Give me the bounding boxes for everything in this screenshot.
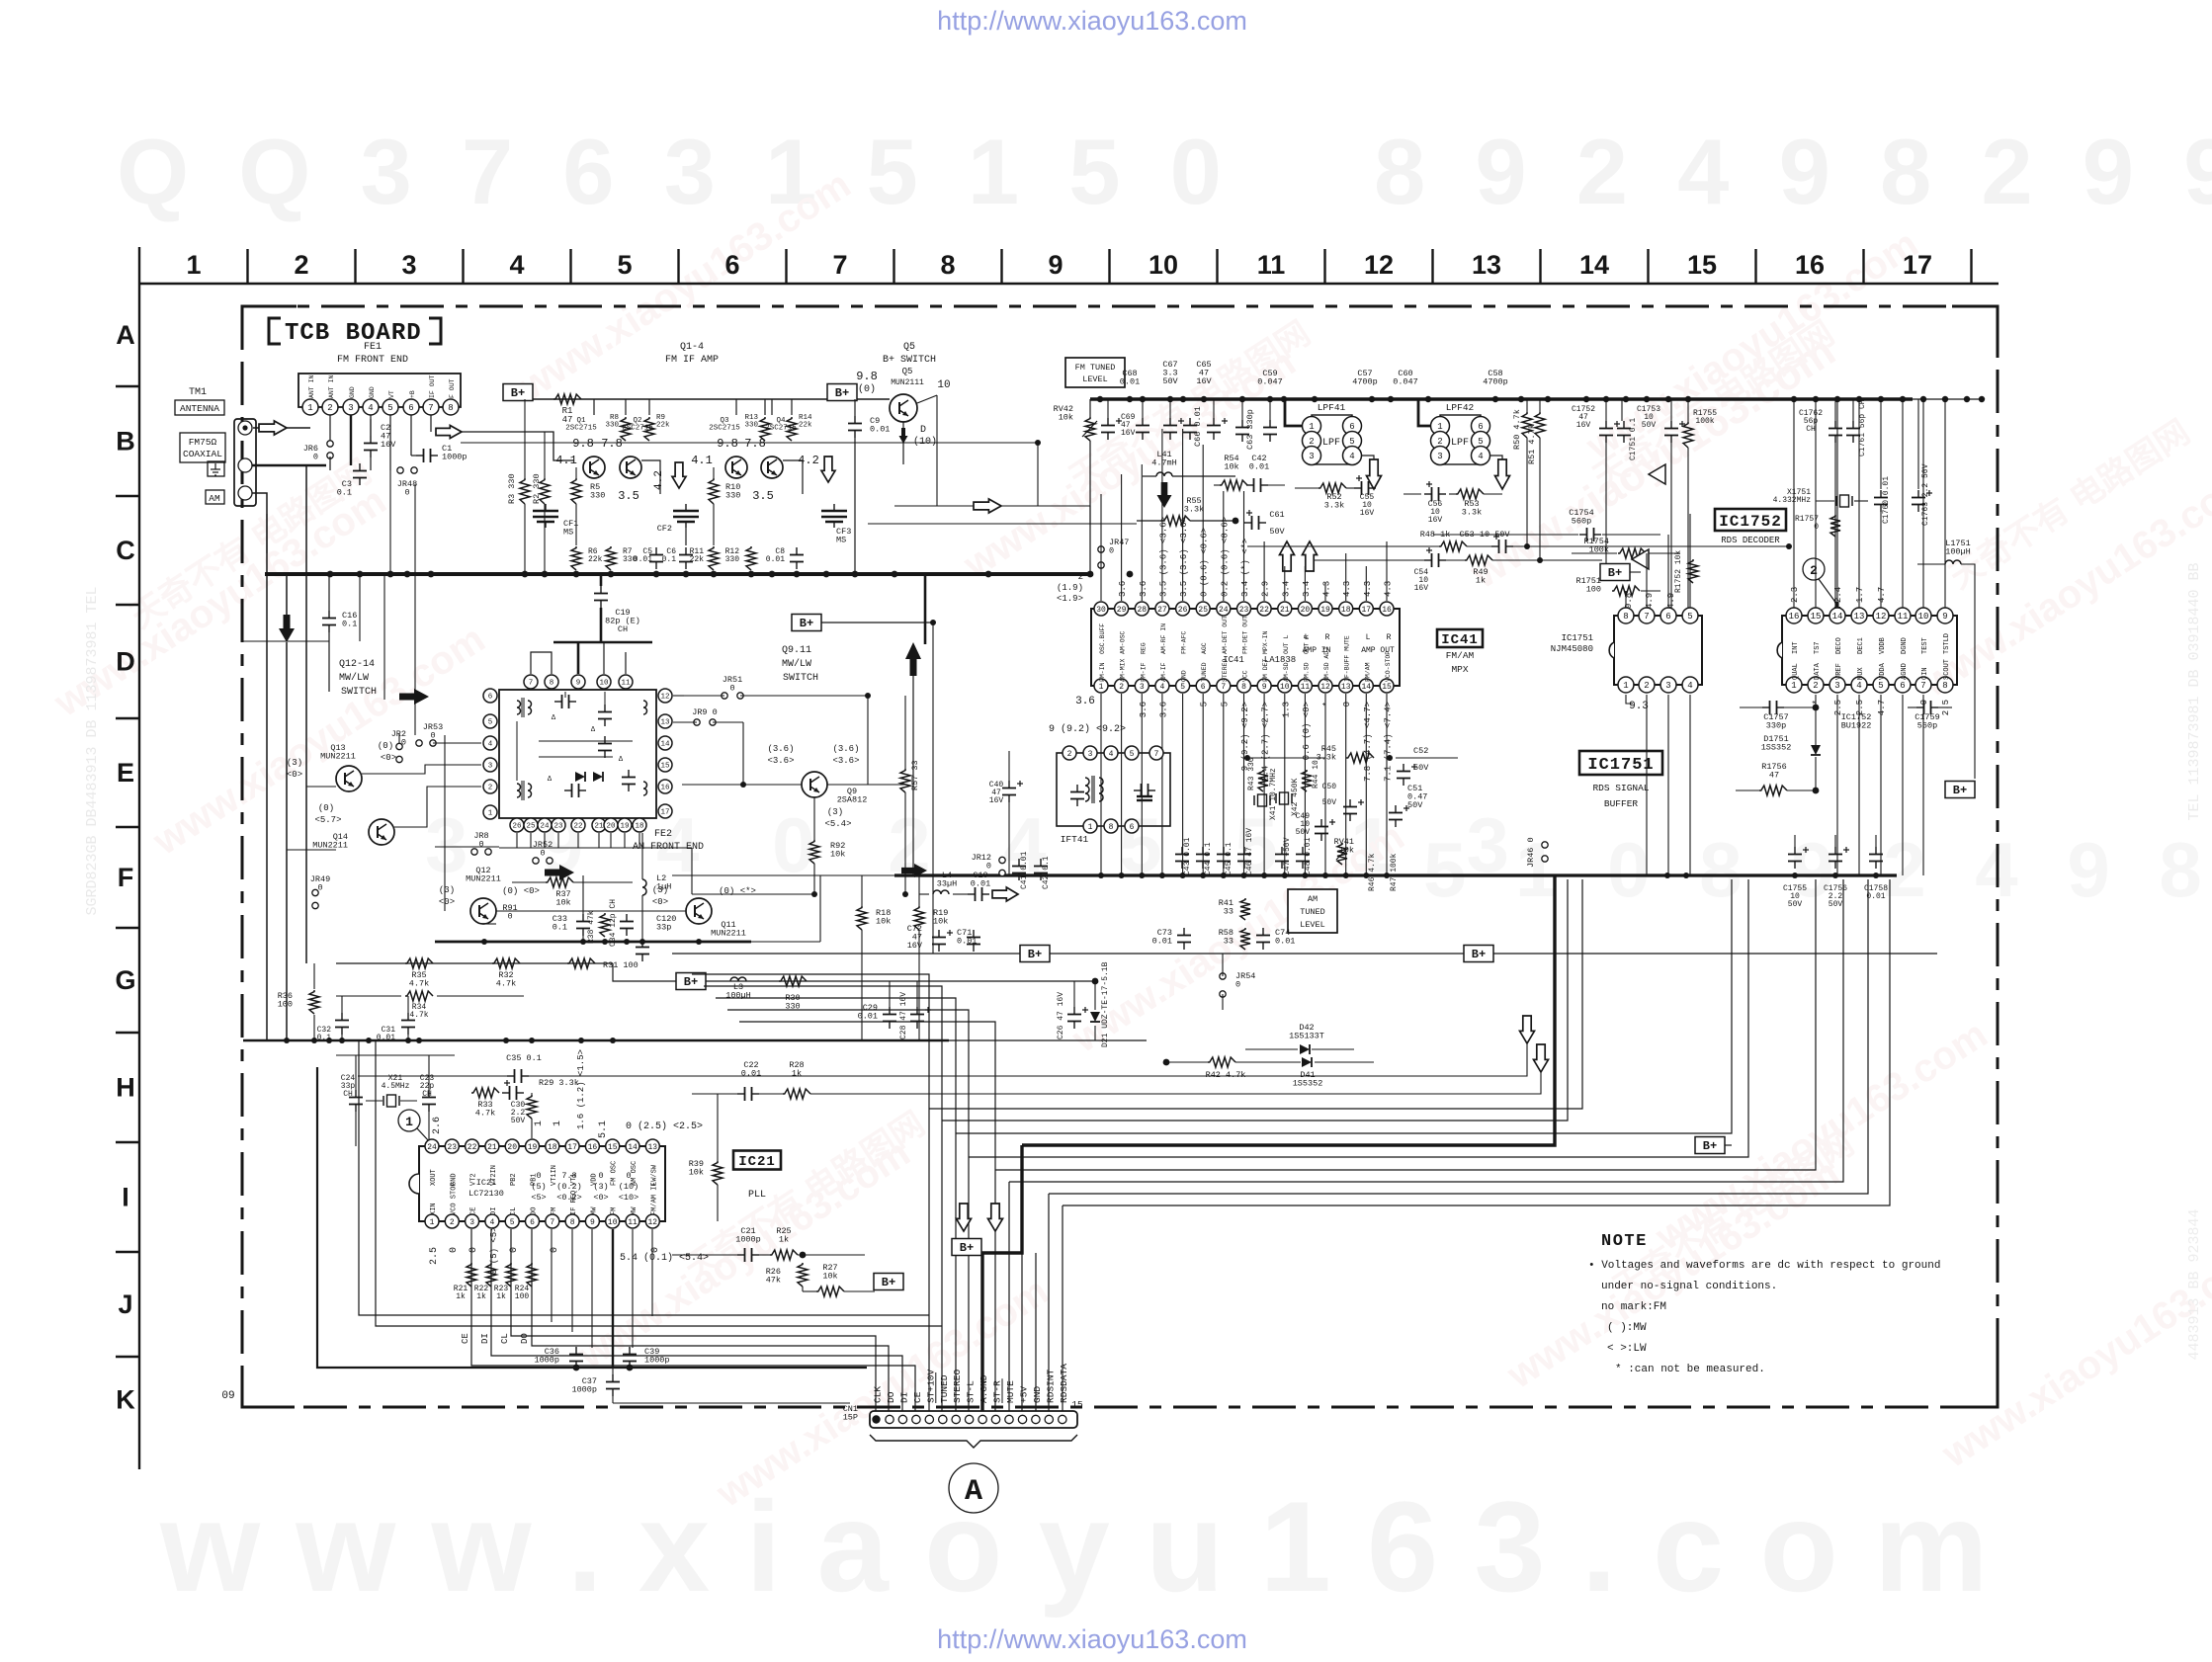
svg-text:1k: 1k xyxy=(792,1069,802,1079)
svg-text:10: 10 xyxy=(937,379,950,391)
svg-text:10k: 10k xyxy=(830,850,845,860)
resistor R30 xyxy=(779,976,807,986)
IC21 pin 5 xyxy=(505,1214,519,1228)
IC21 pin 2 xyxy=(445,1214,459,1228)
resistor R50 xyxy=(1522,412,1532,438)
capacitor C68 xyxy=(1142,418,1144,426)
svg-text:1: 1 xyxy=(430,1218,435,1227)
svg-text:0: 0 xyxy=(468,1247,479,1253)
svg-text:(10): (10) xyxy=(913,436,937,448)
svg-text:TUNED: TUNED xyxy=(1300,907,1325,917)
svg-text:50V: 50V xyxy=(1162,376,1178,386)
resistor R14 xyxy=(787,417,797,441)
svg-text:4.7k: 4.7k xyxy=(409,1011,428,1020)
FE2 pin 3 xyxy=(483,758,497,772)
svg-text:5: 5 xyxy=(387,403,392,413)
svg-text:10: 10 xyxy=(1149,250,1178,280)
svg-text:560p: 560p xyxy=(1572,517,1591,527)
svg-text:AM-MIX: AM-MIX xyxy=(1120,658,1127,682)
arrow IF out xyxy=(436,426,462,439)
svg-text:IC21: IC21 xyxy=(738,1154,776,1170)
svg-text:3.4 (*) <*>: 3.4 (*) <*> xyxy=(1240,539,1250,597)
op-amp IC1751 buffer A xyxy=(1649,464,1665,484)
svg-text:17: 17 xyxy=(567,1143,577,1152)
svg-text:4: 4 xyxy=(1687,681,1692,691)
capacitor C1759 xyxy=(1916,706,1924,708)
svg-text:23: 23 xyxy=(553,823,563,831)
wires Q2 to CF2 xyxy=(641,460,660,494)
svg-text:C26 47 16V: C26 47 16V xyxy=(1057,992,1065,1039)
svg-text:20: 20 xyxy=(606,823,616,831)
svg-text:<1.9>: <1.9> xyxy=(1057,594,1083,604)
svg-text:9 (9.2) <9.2>: 9 (9.2) <9.2> xyxy=(1049,723,1126,735)
wire bus verticals right of Q5 xyxy=(936,395,938,506)
svg-text:13: 13 xyxy=(1472,250,1501,280)
FE2 pin 9 xyxy=(571,675,585,689)
svg-text:B+: B+ xyxy=(960,1241,974,1255)
svg-text:FM: FM xyxy=(611,1207,619,1215)
svg-text:7.8: 7.8 xyxy=(601,437,623,451)
IC41 pin 11 xyxy=(1298,679,1312,693)
capacitor C8 xyxy=(796,547,798,555)
svg-text:0.1: 0.1 xyxy=(342,620,357,629)
svg-text:10k: 10k xyxy=(876,917,891,927)
svg-text:DO: DO xyxy=(520,1333,530,1344)
svg-text:3: 3 xyxy=(348,403,353,413)
svg-text:SCOUT: SCOUT xyxy=(1943,659,1951,680)
svg-text:B+: B+ xyxy=(1953,784,1967,797)
svg-text:560p: 560p xyxy=(1917,721,1937,731)
label B+ rds xyxy=(1600,564,1630,581)
IC21 pin 8 xyxy=(565,1214,579,1228)
svg-text:www.xiaoyu163.com: www.xiaoyu163.com xyxy=(1934,1229,2212,1476)
svg-text:20: 20 xyxy=(1301,606,1311,615)
svg-text:B+: B+ xyxy=(835,386,849,400)
label AM TUNED LEVEL xyxy=(1288,889,1337,933)
svg-text:AM: AM xyxy=(209,493,220,504)
svg-text:AM-SD: AM-SD xyxy=(1283,662,1290,682)
svg-text:FM-DET OUT: FM-DET OUT xyxy=(1242,616,1249,654)
svg-text:4.3: 4.3 xyxy=(1342,581,1352,597)
svg-text:XIN: XIN xyxy=(430,1203,438,1215)
svg-text:4: 4 xyxy=(1159,683,1164,692)
svg-text:13: 13 xyxy=(1854,612,1865,622)
svg-text:2.4: 2.4 xyxy=(1833,587,1843,603)
capacitor C32 xyxy=(341,1013,343,1021)
svg-text:16V: 16V xyxy=(1576,421,1591,430)
svg-text:LPF: LPF xyxy=(1322,438,1340,449)
svg-text:IF OUT: IF OUT xyxy=(429,374,436,398)
label B+ mid xyxy=(792,615,821,631)
svg-text:LEVEL: LEVEL xyxy=(1300,920,1325,930)
svg-text:VCO STOP: VCO STOP xyxy=(450,1182,458,1215)
svg-text:CF2: CF2 xyxy=(657,524,672,534)
IC21 pin 18 xyxy=(546,1139,559,1153)
svg-text:FM OSC: FM OSC xyxy=(611,1161,619,1186)
svg-text:100µH: 100µH xyxy=(725,991,751,1001)
IC41 pin 3 xyxy=(1135,679,1149,693)
capacitor C5 xyxy=(655,547,657,555)
svg-text:C66 0.01: C66 0.01 xyxy=(1193,406,1203,447)
transistor Q11 xyxy=(686,898,712,924)
AM front end FE2 xyxy=(499,690,656,818)
svg-text:<0>: <0> xyxy=(652,897,668,907)
svg-text:<0>: <0> xyxy=(287,770,302,780)
resistor R9 xyxy=(644,417,654,441)
svg-text:6: 6 xyxy=(530,1218,535,1227)
resistor R13 xyxy=(760,417,770,441)
svg-text:ANT IN: ANT IN xyxy=(328,374,335,398)
svg-text:Q9.11: Q9.11 xyxy=(782,645,811,656)
IC41 pin 12 xyxy=(1319,679,1332,693)
svg-text:IC41: IC41 xyxy=(1223,655,1244,665)
IC41 pin 5 xyxy=(1176,679,1190,693)
svg-text:A.GND: A.GND xyxy=(978,1374,989,1403)
svg-text:0.01: 0.01 xyxy=(1866,892,1885,901)
connector label A xyxy=(949,1463,998,1513)
svg-text:2: 2 xyxy=(1078,572,1083,582)
IC41 pin 18 xyxy=(1339,602,1353,616)
IC41 pin 1 xyxy=(1094,679,1108,693)
svg-text:0: 0 xyxy=(478,840,483,850)
svg-text:9.8: 9.8 xyxy=(717,437,738,451)
svg-text:6: 6 xyxy=(724,250,739,280)
svg-text:1: 1 xyxy=(1437,422,1442,432)
svg-text:1: 1 xyxy=(405,1115,413,1129)
svg-text:AGC: AGC xyxy=(1201,642,1208,654)
FE2 pin 7 xyxy=(524,675,538,689)
svg-text:4.3: 4.3 xyxy=(1322,581,1332,597)
svg-text:TUNED: TUNED xyxy=(1201,662,1208,682)
svg-text:BUFFER: BUFFER xyxy=(1604,798,1639,809)
label IC41 boxed xyxy=(1437,629,1483,647)
capacitor C67 xyxy=(1169,418,1171,426)
svg-text:5: 5 xyxy=(1220,702,1230,706)
svg-text:33: 33 xyxy=(1224,937,1234,947)
transformer IFT41 xyxy=(1057,753,1170,826)
svg-text:5: 5 xyxy=(1200,702,1210,706)
svg-text:C61: C61 xyxy=(1269,510,1284,520)
svg-text:330: 330 xyxy=(725,555,740,564)
svg-text:10k: 10k xyxy=(933,917,948,927)
resistor R5 xyxy=(571,478,581,504)
FE2 pin 23 xyxy=(552,818,565,832)
svg-text:PB2: PB2 xyxy=(510,1173,518,1186)
svg-text:2: 2 xyxy=(1813,681,1818,691)
ground rail PLL xyxy=(243,1039,949,1042)
svg-text:CH: CH xyxy=(618,624,628,634)
svg-text:8 9 2 4 9 8 2 9 9: 8 9 2 4 9 8 2 9 9 xyxy=(1374,120,2212,223)
svg-text:0: 0 xyxy=(430,731,435,741)
label B+ b xyxy=(1464,946,1493,962)
svg-text:5: 5 xyxy=(617,250,632,280)
svg-text:4: 4 xyxy=(489,1218,494,1227)
capacitor C1757 xyxy=(1762,706,1770,708)
svg-text:21: 21 xyxy=(1280,606,1290,615)
svg-text:0.01: 0.01 xyxy=(1120,377,1140,387)
svg-text:330p: 330p xyxy=(1766,721,1786,731)
arrow into bus xyxy=(901,864,927,877)
svg-text:8: 8 xyxy=(1241,683,1246,692)
IC21 pin 20 xyxy=(505,1139,519,1153)
svg-text:3: 3 xyxy=(1140,683,1145,692)
svg-text:1: 1 xyxy=(488,810,493,818)
capacitor C54 xyxy=(1424,559,1432,561)
svg-text:1000p: 1000p xyxy=(571,1385,597,1395)
svg-text:(0.2): (0.2) xyxy=(556,1182,582,1192)
svg-text:16: 16 xyxy=(1382,606,1392,615)
svg-text:2: 2 xyxy=(294,250,308,280)
resistor R51 xyxy=(1535,412,1545,438)
svg-text:12: 12 xyxy=(1364,250,1394,280)
svg-text:• Voltages and waveforms are d: • Voltages and waveforms are dc with res… xyxy=(1588,1260,1940,1272)
svg-text:IC1751: IC1751 xyxy=(1562,633,1593,643)
FE2 pin 8 xyxy=(545,675,558,689)
resistor R12 xyxy=(746,546,756,570)
svg-text:R38 47k: R38 47k xyxy=(587,910,596,944)
svg-text:100: 100 xyxy=(1586,585,1601,595)
svg-text:0.01: 0.01 xyxy=(1275,937,1295,947)
FE2 pin 4 xyxy=(483,736,497,750)
svg-text:3: 3 xyxy=(1088,750,1093,759)
svg-text:<0>: <0> xyxy=(439,897,455,907)
FE2 pin 13 xyxy=(658,714,672,728)
svg-text:LPF: LPF xyxy=(1451,438,1469,449)
svg-text:0: 0 xyxy=(313,453,318,462)
svg-text:3: 3 xyxy=(488,763,493,771)
wire Q12 Q11 row xyxy=(496,910,686,912)
svg-text:Δ: Δ xyxy=(619,756,624,764)
svg-text:R57 33: R57 33 xyxy=(910,760,920,790)
svg-text:2: 2 xyxy=(327,403,332,413)
svg-text:C63 330p: C63 330p xyxy=(1245,409,1255,450)
wire left col drop 1 xyxy=(266,514,268,553)
svg-text:(0): (0) xyxy=(318,803,334,813)
wire q13 bias xyxy=(305,786,307,788)
svg-text:1: 1 xyxy=(1099,683,1104,692)
svg-text:OUT L: OUT L xyxy=(1283,634,1290,654)
wire thick B+ drop xyxy=(924,574,927,644)
wire top supply bus xyxy=(1090,397,1913,401)
arrow down left xyxy=(279,615,295,642)
svg-text:14: 14 xyxy=(1579,250,1609,280)
FE2 pin 5 xyxy=(483,714,497,728)
svg-text:1.7: 1.7 xyxy=(1855,587,1865,603)
svg-text:FM-IN: FM-IN xyxy=(1099,662,1106,682)
wire left horizontals xyxy=(243,640,329,642)
svg-text:0: 0 xyxy=(540,849,545,859)
svg-text:0.047: 0.047 xyxy=(1393,377,1418,387)
IC21 pin 16 xyxy=(585,1139,599,1153)
svg-text:15: 15 xyxy=(1071,1399,1083,1410)
wire net to CN1 STEREO xyxy=(716,998,956,1412)
wire collector xyxy=(625,399,627,415)
capacitor C59 xyxy=(1269,420,1271,428)
svg-text:VREF: VREF xyxy=(1835,663,1843,680)
svg-text:1S5352: 1S5352 xyxy=(1293,1079,1323,1089)
label B+ right lower xyxy=(1945,782,1975,798)
svg-text:AMP OUT: AMP OUT xyxy=(1361,646,1395,655)
wires IC21 to CN1 DI xyxy=(491,1229,902,1412)
FE2 pin 25 xyxy=(524,818,538,832)
ceramic filter CF1 xyxy=(533,510,558,513)
svg-text:1: 1 xyxy=(186,250,201,280)
svg-text:VDDA: VDDA xyxy=(1879,662,1887,680)
svg-text:AMP IN: AMP IN xyxy=(1303,646,1331,655)
svg-text:8: 8 xyxy=(1942,681,1947,691)
svg-text:9.8: 9.8 xyxy=(856,370,878,383)
resistor R1 xyxy=(553,394,581,404)
svg-text:10: 10 xyxy=(608,1218,618,1227)
wire det out row xyxy=(1247,757,1325,759)
IC21 pin 13 xyxy=(645,1139,659,1153)
wire long y448 xyxy=(461,442,1038,444)
wire antenna to FE1 xyxy=(253,427,310,429)
svg-text:8: 8 xyxy=(940,250,955,280)
svg-text:4.3: 4.3 xyxy=(1384,581,1394,597)
svg-text:1: 1 xyxy=(553,1121,563,1126)
svg-text:7.1 (7.4) <7.4>: 7.1 (7.4) <7.4> xyxy=(1384,702,1394,782)
svg-text:6: 6 xyxy=(1478,422,1483,432)
svg-text:24: 24 xyxy=(540,823,550,831)
capacitor C65 xyxy=(1213,418,1215,426)
wire to Q1 base xyxy=(462,432,574,460)
svg-text:7.8: 7.8 xyxy=(744,437,766,451)
svg-text:1: 1 xyxy=(1791,681,1796,691)
FE2 pin 6 xyxy=(483,689,497,703)
harness line 2 xyxy=(942,879,1568,1121)
wires IC1751 pins down xyxy=(1646,695,1648,875)
svg-text:4700p: 4700p xyxy=(1352,377,1378,387)
svg-text:10: 10 xyxy=(1918,612,1929,622)
svg-text:R: R xyxy=(1387,633,1392,642)
FE2 internal diodes xyxy=(575,772,585,782)
ground rail xyxy=(265,572,1093,576)
svg-text:14: 14 xyxy=(660,741,670,749)
FE2 bottom stubs xyxy=(516,833,518,848)
svg-text:0: 0 xyxy=(729,684,734,694)
IC41 pin 6 xyxy=(1196,679,1210,693)
svg-text:50V: 50V xyxy=(1829,900,1843,909)
svg-text:8: 8 xyxy=(570,1218,575,1227)
harness line RDSINT xyxy=(1049,879,1868,1194)
wire collector xyxy=(764,399,766,415)
IC41 pin 4 xyxy=(1155,679,1169,693)
svg-text:INT: INT xyxy=(1792,641,1800,654)
FE2 top wires xyxy=(531,652,552,674)
wire net to CN1 TUNED xyxy=(704,986,942,1412)
IC21 PLL LC72130 xyxy=(419,1146,665,1221)
svg-text:100µH: 100µH xyxy=(1945,547,1971,557)
IC21 pin 6 xyxy=(526,1214,540,1228)
svg-text:16V: 16V xyxy=(907,941,923,951)
svg-text:MPX-IN: MPX-IN xyxy=(1262,630,1269,654)
svg-text:47: 47 xyxy=(1769,771,1779,781)
svg-text:4.5MHz: 4.5MHz xyxy=(382,1082,410,1091)
svg-text:3: 3 xyxy=(1665,681,1670,691)
svg-text:FM.SD: FM.SD xyxy=(1303,662,1310,682)
label B+ right xyxy=(827,384,857,401)
wires IC21 to CN1 CLK xyxy=(511,1229,876,1412)
label B+ PLL xyxy=(676,973,706,990)
svg-text:LPF42: LPF42 xyxy=(1446,402,1475,413)
FE2 pin 16 xyxy=(658,780,672,793)
svg-text:16: 16 xyxy=(660,785,670,792)
svg-text:12: 12 xyxy=(1320,683,1330,692)
IC41 pin 10 xyxy=(1278,679,1292,693)
svg-text:2.9: 2.9 xyxy=(1261,581,1271,597)
svg-text:TEL 1139873981 DB 03918440 BB: TEL 1139873981 DB 03918440 BB xyxy=(2186,562,2203,820)
svg-text:RDS DECODER: RDS DECODER xyxy=(1721,536,1780,545)
FE2 pin 22 xyxy=(571,818,585,832)
op-amp IC1751 buffer B xyxy=(1632,549,1649,569)
svg-text:15: 15 xyxy=(660,763,670,771)
svg-text:DGND: DGND xyxy=(1901,637,1909,654)
svg-text:CE: CE xyxy=(461,1333,470,1344)
wire IF OUT xyxy=(430,415,432,432)
arrow mid right xyxy=(545,865,574,880)
svg-text:16V: 16V xyxy=(1360,509,1375,518)
svg-text:w w w . x i a o y u 1 6 3 . c: w w w . x i a o y u 1 6 3 . c o m xyxy=(159,1474,1989,1619)
svg-text:IC41: IC41 xyxy=(1441,632,1479,648)
svg-text:0.01: 0.01 xyxy=(870,425,890,435)
svg-text:NJM45080: NJM45080 xyxy=(1551,644,1593,654)
jumper JR6 xyxy=(327,441,333,447)
svg-text:12: 12 xyxy=(1876,612,1887,622)
svg-text:18: 18 xyxy=(1341,606,1351,615)
svg-text:SWITCH: SWITCH xyxy=(783,673,818,684)
IC41 pin 19 xyxy=(1319,602,1332,616)
svg-text:R46 4.7k: R46 4.7k xyxy=(1368,853,1377,891)
svg-text:R42 4.7k: R42 4.7k xyxy=(1206,1070,1246,1080)
svg-text:14: 14 xyxy=(628,1143,638,1152)
arrow IF to CF2 xyxy=(672,462,686,488)
svg-text:VDDB: VDDB xyxy=(1879,637,1887,654)
svg-text:3.3k: 3.3k xyxy=(1324,501,1344,511)
svg-text:FM FRONT END: FM FRONT END xyxy=(337,355,408,366)
svg-text:TCB BOARD: TCB BOARD xyxy=(285,320,422,347)
svg-text:FM/AM IF: FM/AM IF xyxy=(650,1182,658,1215)
svg-text:21: 21 xyxy=(487,1143,497,1152)
svg-text:11: 11 xyxy=(1898,612,1909,622)
svg-text:2: 2 xyxy=(1067,750,1072,759)
svg-text:27: 27 xyxy=(1157,606,1167,615)
svg-text:VCC: VCC xyxy=(1242,670,1249,682)
svg-text:C34 12p CH: C34 12p CH xyxy=(609,899,618,947)
wires IC21 to CN1 DO xyxy=(532,1229,889,1412)
svg-text:DI: DI xyxy=(480,1333,490,1344)
resistor R57 xyxy=(900,769,910,792)
svg-text:OSC.BUFF: OSC.BUFF xyxy=(1099,623,1106,654)
label B+ rail xyxy=(503,384,533,401)
svg-text:4.7k: 4.7k xyxy=(496,979,516,989)
svg-text:19: 19 xyxy=(528,1143,538,1152)
svg-text:6: 6 xyxy=(1349,422,1354,432)
svg-text:RDS SIGNAL: RDS SIGNAL xyxy=(1592,783,1649,793)
svg-text:FM TUNED: FM TUNED xyxy=(1075,363,1116,373)
harness line RDSDATA xyxy=(1063,879,1890,1205)
FE2 pin 26 xyxy=(510,818,524,832)
wire net to CN1 ST-L xyxy=(727,1010,969,1412)
svg-text:0: 0 xyxy=(1109,546,1114,556)
wire Q5 emitter xyxy=(902,422,904,464)
svg-text:AGND: AGND xyxy=(1901,663,1909,680)
B+ rail lower xyxy=(672,953,1937,955)
svg-text:VCO-STOP: VCO-STOP xyxy=(1385,651,1392,682)
harness line 4 xyxy=(969,879,1748,1157)
wire B+ PLL feed xyxy=(613,963,850,981)
svg-text:0.01: 0.01 xyxy=(634,555,652,564)
